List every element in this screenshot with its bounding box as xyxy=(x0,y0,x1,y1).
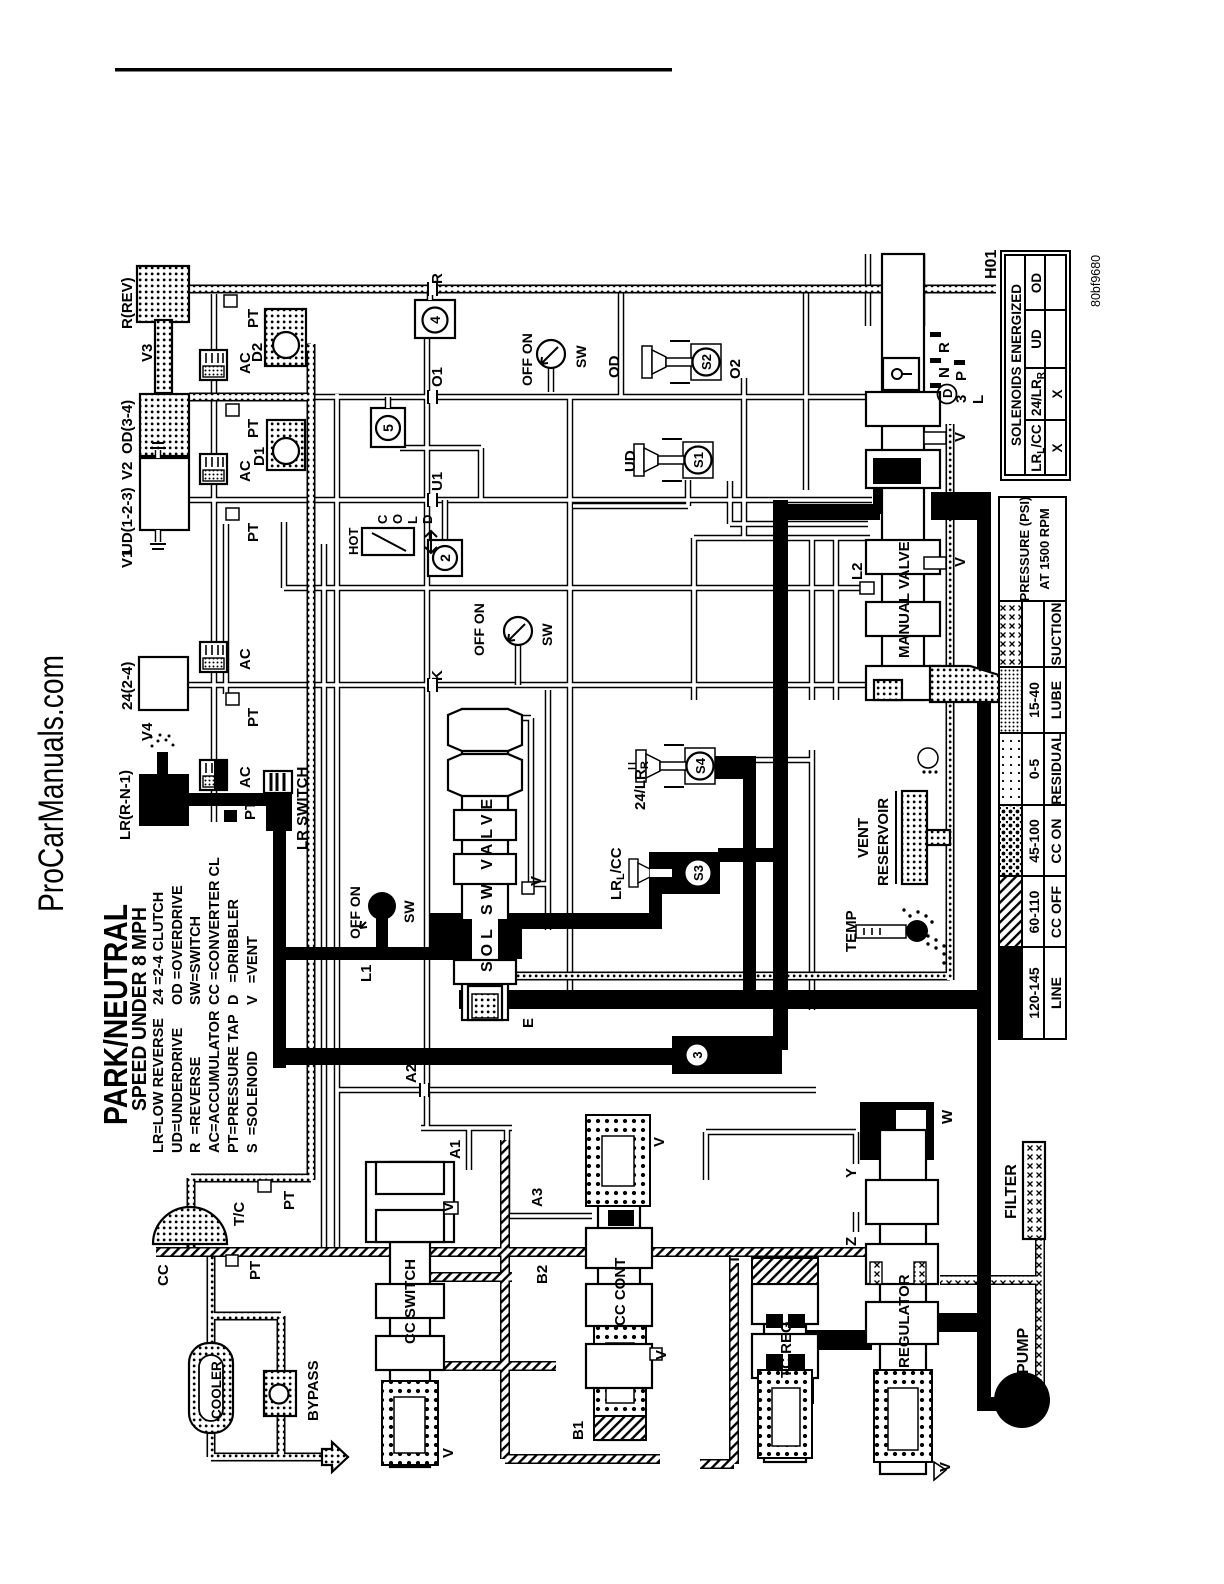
pressure switch 2 housing xyxy=(442,500,449,540)
svg-text:OD: OD xyxy=(606,355,623,378)
svg-text:OFF ON: OFF ON xyxy=(347,886,363,939)
wire manual valve feed elbow xyxy=(931,492,991,520)
svg-text:L: L xyxy=(970,395,987,404)
svg-text:SPEED UNDER 8 MPH: SPEED UNDER 8 MPH xyxy=(128,907,151,1111)
wire LR black horizontal bar xyxy=(273,826,286,1068)
svg-text:C: C xyxy=(375,514,390,524)
svg-text:V: V xyxy=(952,557,969,567)
svg-text:120-145: 120-145 xyxy=(1026,967,1042,1019)
svg-text:AC=ACCUMULATOR: AC=ACCUMULATOR xyxy=(207,1010,223,1153)
svg-text:OD: OD xyxy=(1029,273,1044,294)
svg-text:UD: UD xyxy=(1029,329,1044,349)
stipple feed blob at manual valve xyxy=(930,666,1015,702)
svg-text:V1: V1 xyxy=(119,550,136,568)
svg-text:D2: D2 xyxy=(249,343,266,362)
svg-text:24 =2-4 CLUTCH: 24 =2-4 CLUTCH xyxy=(151,892,167,1005)
T/C PT stub xyxy=(258,1180,271,1192)
svg-text:S4: S4 xyxy=(693,757,708,774)
wire TC REG black link xyxy=(796,1330,872,1350)
svg-text:O: O xyxy=(390,514,405,524)
svg-text:CC SWITCH: CC SWITCH xyxy=(402,1259,419,1344)
svg-text:UD=UNDERDRIVE: UD=UNDERDRIVE xyxy=(170,1027,186,1153)
svg-text:OD(3-4): OD(3-4) xyxy=(119,400,136,454)
svg-text:V4: V4 xyxy=(139,722,156,741)
svg-text:D: D xyxy=(420,515,435,524)
svg-text:5: 5 xyxy=(380,424,396,432)
legend column 1 xyxy=(151,1010,261,1153)
wire L1 black bar lower xyxy=(470,913,662,929)
svg-text:LRL/CC: LRL/CC xyxy=(608,847,627,900)
svg-text:W: W xyxy=(939,1109,956,1124)
svg-text:SUCTION: SUCTION xyxy=(1048,603,1064,666)
svg-text:L2: L2 xyxy=(849,562,866,580)
dribbler D2 xyxy=(265,309,306,366)
svg-text:60-110: 60-110 xyxy=(1026,890,1042,933)
header rule (portrait native) xyxy=(115,68,672,72)
svg-text:UD(1-2-3): UD(1-2-3) xyxy=(119,487,136,554)
V1 vent stub xyxy=(155,530,162,542)
svg-text:V2: V2 xyxy=(119,462,136,480)
svg-text:Y: Y xyxy=(843,1168,860,1178)
clutch UD(1-2-3) box xyxy=(140,458,189,530)
svg-text:LR(R-N-1): LR(R-N-1) xyxy=(117,770,134,840)
pressure switch OD (circle+stem) xyxy=(548,368,555,392)
svg-text:LUBE: LUBE xyxy=(1048,681,1064,719)
svg-text:HOT: HOT xyxy=(346,528,361,556)
wire 3-line vertical bar xyxy=(283,1048,674,1065)
LR(R-N-1) clutch black box xyxy=(139,774,189,826)
svg-text:BYPASS: BYPASS xyxy=(305,1360,322,1421)
svg-text:PRESSURE (PSI): PRESSURE (PSI) xyxy=(1017,497,1032,602)
svg-text:FILTER: FILTER xyxy=(1003,1164,1020,1219)
svg-text:PT: PT xyxy=(245,419,262,438)
circled numbers xyxy=(380,316,453,562)
wire S3-S4 cross link xyxy=(743,848,788,862)
svg-text:V: V xyxy=(952,432,969,442)
svg-text:A1: A1 xyxy=(447,1140,464,1159)
solenoid S3 black housing xyxy=(649,852,720,894)
pressure switch LR (filled) stem xyxy=(376,917,388,947)
svg-text:H01: H01 xyxy=(983,250,1000,279)
svg-text:RESERVOIR: RESERVOIR xyxy=(875,798,892,886)
svg-text:V: V xyxy=(528,876,545,886)
svg-text:REGULATOR: REGULATOR xyxy=(896,1274,913,1368)
svg-text:AT 1500 RPM: AT 1500 RPM xyxy=(1037,508,1052,589)
svg-text:VENT: VENT xyxy=(855,818,872,858)
wire L1 elbow2 xyxy=(649,889,662,929)
svg-text:SW: SW xyxy=(573,345,589,368)
svg-text:D =DRIBBLER: D =DRIBBLER xyxy=(226,899,242,1005)
svg-text:CC ON: CC ON xyxy=(1048,818,1064,863)
wire S3 stub xyxy=(718,848,746,862)
svg-text:A3: A3 xyxy=(529,1188,546,1207)
svg-text:N: N xyxy=(936,367,953,378)
svg-text:A2: A2 xyxy=(403,1064,420,1083)
svg-text:15-40: 15-40 xyxy=(1026,682,1042,718)
svg-text:LR SWITCH: LR SWITCH xyxy=(294,767,311,850)
svg-text:OFF ON: OFF ON xyxy=(471,603,487,656)
pressure switch 24 (circle+stem) xyxy=(515,645,522,685)
svg-text:0-5: 0-5 xyxy=(1026,759,1042,779)
svg-text:PT: PT xyxy=(247,1261,264,1280)
pressure switch 4 housing xyxy=(415,300,455,338)
svg-text:OD =OVERDRIVE: OD =OVERDRIVE xyxy=(170,885,186,1005)
svg-text:S =SOLENOID: S =SOLENOID xyxy=(245,1051,261,1153)
solenoid S3 internals (white on black) xyxy=(629,859,638,887)
svg-text:D1: D1 xyxy=(251,447,268,466)
wire LRl/CC bar y749 xyxy=(743,756,756,1000)
svg-text:R(REV): R(REV) xyxy=(119,277,136,329)
check ball 3 housing xyxy=(672,1036,782,1074)
svg-text:T/C: T/C xyxy=(231,1202,248,1226)
svg-text:4: 4 xyxy=(427,316,443,324)
svg-text:3: 3 xyxy=(690,1051,705,1058)
svg-text:45-100: 45-100 xyxy=(1026,819,1042,863)
wire manual valve black connector xyxy=(780,504,880,520)
wire E line vertical bar xyxy=(459,990,991,1009)
svg-text:2: 2 xyxy=(437,554,453,562)
pressure switch LR (filled) xyxy=(368,892,396,920)
svg-text:LR=LOW REVERSE: LR=LOW REVERSE xyxy=(151,1018,167,1153)
svg-text:80bf9680: 80bf9680 xyxy=(1089,255,1103,307)
svg-text:PT: PT xyxy=(281,1191,298,1210)
svg-text:RESIDUAL: RESIDUAL xyxy=(1048,733,1064,805)
svg-text:PT=PRESSURE TAP: PT=PRESSURE TAP xyxy=(226,1014,242,1153)
svg-text:LINE: LINE xyxy=(1048,977,1064,1009)
svg-text:AC: AC xyxy=(237,766,254,788)
svg-text:CC =CONVERTER CL: CC =CONVERTER CL xyxy=(207,857,223,1005)
svg-text:V: V xyxy=(937,1462,954,1472)
svg-text:COOLER: COOLER xyxy=(209,1361,224,1419)
svg-text:X: X xyxy=(1050,443,1065,452)
clutch R(REV) stippled box xyxy=(137,266,189,322)
solenoid S4 black stub xyxy=(713,756,750,779)
svg-text:CC: CC xyxy=(155,1264,172,1286)
svg-text:PT: PT xyxy=(245,523,262,542)
svg-text:O2: O2 xyxy=(727,359,744,379)
svg-text:V =VENT: V =VENT xyxy=(245,936,261,1005)
svg-text:24(2-4): 24(2-4) xyxy=(119,662,136,710)
svg-text:V: V xyxy=(653,1350,670,1360)
svg-text:CC CONT: CC CONT xyxy=(612,1258,629,1326)
svg-text:V: V xyxy=(440,1448,457,1458)
sol sw valve bore black blocks xyxy=(448,919,473,959)
V4 vent nozzle xyxy=(157,752,168,774)
wire LR black block at switch xyxy=(266,793,292,831)
svg-text:X: X xyxy=(1050,389,1065,398)
svg-text:CC OFF: CC OFF xyxy=(1048,886,1064,939)
svg-text:SOL SW VALVE: SOL SW VALVE xyxy=(479,794,496,972)
svg-text:V3: V3 xyxy=(139,344,156,362)
svg-text:PT: PT xyxy=(245,309,262,328)
svg-text:P: P xyxy=(953,371,970,381)
wire MAIN LINE pressure bar xyxy=(977,492,991,1411)
svg-text:B1: B1 xyxy=(570,1421,587,1440)
svg-text:UD: UD xyxy=(622,450,639,472)
svg-text:AC: AC xyxy=(237,648,254,670)
svg-text:S1: S1 xyxy=(691,452,706,468)
svg-text:TC REG: TC REG xyxy=(778,1321,795,1378)
svg-text:L: L xyxy=(405,516,420,524)
svg-text:E: E xyxy=(520,1018,537,1028)
svg-text:Z: Z xyxy=(843,1237,860,1246)
pressure switch 5 housing xyxy=(371,408,405,447)
svg-text:SW=SWITCH: SW=SWITCH xyxy=(188,916,204,1005)
svg-text:MANUAL VALVE: MANUAL VALVE xyxy=(896,541,913,658)
svg-text:R: R xyxy=(936,342,953,353)
svg-text:V: V xyxy=(651,1137,668,1147)
svg-text:O1: O1 xyxy=(429,367,446,387)
svg-text:PUMP: PUMP xyxy=(1015,1327,1032,1374)
svg-text:S3: S3 xyxy=(691,865,706,881)
wire LR black down-bar xyxy=(186,793,276,806)
legend column 2 xyxy=(151,857,261,1005)
V2 vent stub xyxy=(155,450,162,458)
svg-text:TEMP: TEMP xyxy=(843,910,860,952)
svg-text:S2: S2 xyxy=(699,354,714,370)
svg-text:R =REVERSE: R =REVERSE xyxy=(188,1056,204,1153)
thermal valve HOT/COLD xyxy=(362,528,414,555)
svg-text:T: T xyxy=(726,1255,743,1264)
svg-text:PT: PT xyxy=(245,708,262,727)
svg-text:PT: PT xyxy=(242,801,259,820)
svg-text:SW: SW xyxy=(401,900,417,923)
svg-text:U1: U1 xyxy=(429,472,446,491)
svg-text:V: V xyxy=(440,1202,457,1212)
wire L1 elbow xyxy=(430,913,475,960)
relief ball on gallery xyxy=(918,748,938,768)
wire L1 black bar upper xyxy=(279,947,439,960)
wire regulator tee xyxy=(936,1313,979,1332)
svg-text:OFF ON: OFF ON xyxy=(519,333,535,386)
wire pump riser xyxy=(984,1397,1029,1411)
V3 channel xyxy=(155,320,172,393)
pipe break symbols xyxy=(420,282,437,1097)
dribbler D1 xyxy=(267,420,305,470)
svg-text:SOLENOIDS ENERGIZED: SOLENOIDS ENERGIZED xyxy=(1009,284,1024,446)
wire manual valve bore black xyxy=(873,460,918,484)
regulator end black cap W xyxy=(860,1102,934,1160)
clutch 24(2-4) box xyxy=(139,657,188,710)
bypass dump arrow xyxy=(322,1442,348,1472)
svg-text:L1: L1 xyxy=(358,964,375,982)
svg-text:B2: B2 xyxy=(534,1265,551,1284)
wire line-3 to manual valve bar y780 xyxy=(773,500,788,1050)
svg-text:ProCarManuals.com: ProCarManuals.com xyxy=(32,655,71,912)
clutch OD(3-4) stippled box xyxy=(140,394,189,456)
svg-text:SW: SW xyxy=(539,623,555,646)
